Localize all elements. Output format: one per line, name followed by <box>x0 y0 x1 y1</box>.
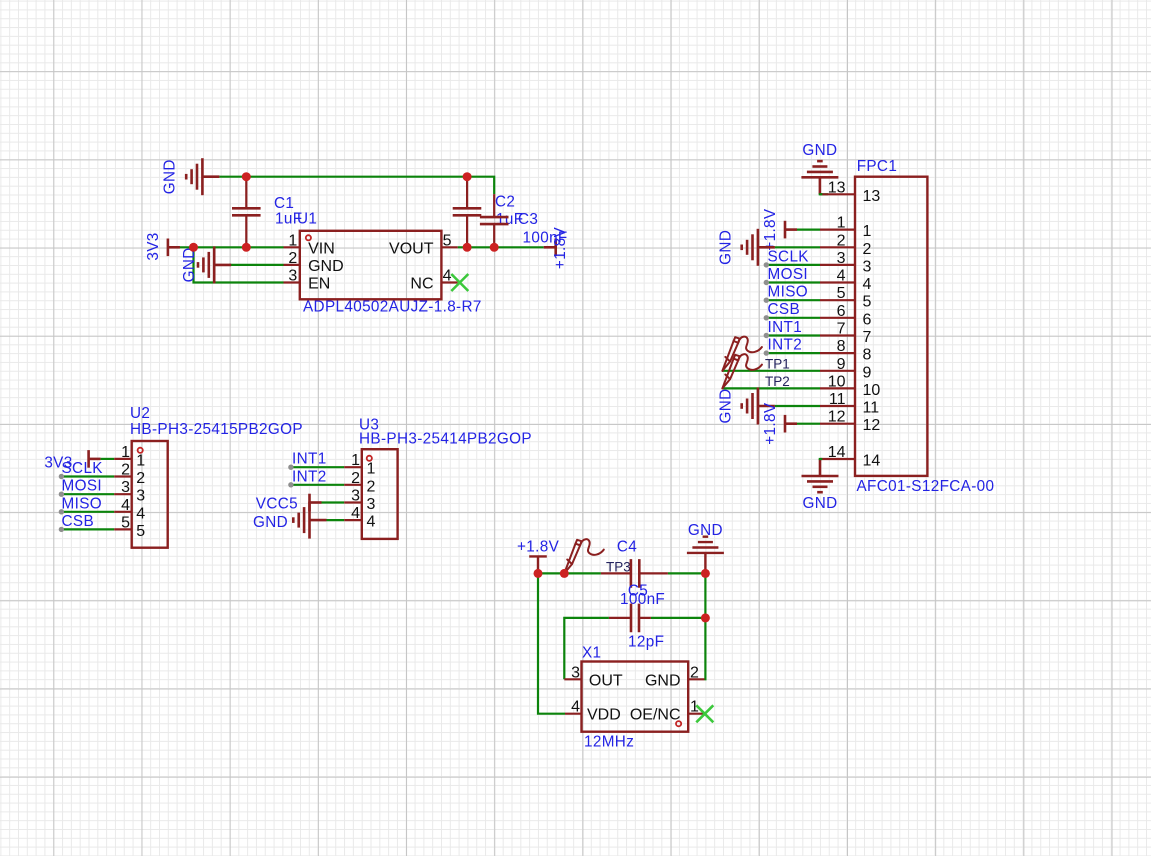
FPC1 pin 2 <box>820 246 855 248</box>
svg-text:1: 1 <box>121 444 130 461</box>
svg-text:C5: C5 <box>628 583 648 600</box>
X1 pin 3 <box>564 678 581 680</box>
wire TP1 (FPC pin9) <box>722 370 820 372</box>
U1 pin 2 <box>284 264 300 266</box>
wire top rail left <box>538 572 601 574</box>
op-amp U1 body <box>300 231 442 299</box>
svg-text:12: 12 <box>828 409 846 426</box>
net label 3V3 (vertical) <box>145 232 162 260</box>
svg-text:TP1: TP1 <box>765 357 790 372</box>
net label GND (U3) <box>253 514 288 531</box>
svg-text:HB-PH3-25414PB2GOP: HB-PH3-25414PB2GOP <box>359 430 532 447</box>
U2 pin 1 <box>114 458 132 460</box>
svg-text:9: 9 <box>863 364 872 381</box>
gray dangling dots U2 <box>59 474 64 532</box>
svg-text:VCC5: VCC5 <box>256 495 298 512</box>
X1 pin names <box>587 672 681 723</box>
svg-text:FPC1: FPC1 <box>857 158 898 175</box>
svg-text:7: 7 <box>837 321 846 338</box>
net label SCLK (U2) <box>62 460 104 477</box>
value HB-PH3-25415PB2GOP <box>130 421 303 438</box>
FPC1 pin 10 <box>820 387 855 389</box>
reference X1 <box>582 645 601 662</box>
svg-text:10: 10 <box>828 373 846 390</box>
connector U2 body <box>132 441 168 548</box>
svg-text:4: 4 <box>837 268 846 285</box>
svg-text:VIN: VIN <box>308 240 335 257</box>
junction dots U1 rails <box>189 172 499 252</box>
net label GND (crystal) <box>688 522 723 539</box>
svg-text:NC: NC <box>410 276 433 293</box>
capacitor C5 <box>609 604 651 633</box>
U3 pin1 marker circle <box>367 456 372 461</box>
svg-text:5: 5 <box>863 294 872 311</box>
svg-text:AFC01-S12FCA-00: AFC01-S12FCA-00 <box>857 478 995 495</box>
svg-text:INT1: INT1 <box>768 319 803 336</box>
svg-text:GND: GND <box>645 672 681 689</box>
gray dangling dots FPC <box>764 262 769 356</box>
U1 pin 4 <box>441 281 457 283</box>
svg-text:4: 4 <box>443 268 452 285</box>
wire joint dot pin13 <box>819 193 823 195</box>
wire MISO (FPC pin5) <box>766 299 820 301</box>
net label MISO (U2) <box>62 495 103 512</box>
no-connect flag U1 pin4 <box>451 274 468 291</box>
capacitor C2 <box>453 177 482 248</box>
net label GND (U1 pin2, vertical) <box>181 247 198 282</box>
net label +1.8V (FPC pin1, vertical) <box>762 208 779 251</box>
U2 pin 3 <box>114 493 132 495</box>
svg-text:3: 3 <box>288 268 297 285</box>
net label GND (top-left, vertical) <box>162 159 179 194</box>
FPC1 inside pin numbers <box>863 188 881 470</box>
svg-text:7: 7 <box>863 329 872 346</box>
wire: pin13 to GND <box>820 193 828 195</box>
reference FPC1 <box>857 158 898 175</box>
connector U3 body <box>362 449 398 539</box>
svg-text:3: 3 <box>367 496 376 513</box>
svg-text:12: 12 <box>863 417 881 434</box>
svg-text:4: 4 <box>136 505 145 522</box>
X1 pin numbers <box>571 664 699 715</box>
svg-text:GND: GND <box>802 495 837 512</box>
net label VCC5 <box>256 495 298 512</box>
svg-text:U1: U1 <box>297 211 317 228</box>
value 12MHz <box>584 734 634 751</box>
power flag +1.8V (crystal) <box>529 556 547 573</box>
svg-text:EN: EN <box>308 276 330 293</box>
svg-text:3: 3 <box>136 488 145 505</box>
FPC1 outside pin numbers <box>828 179 846 461</box>
U3 pin 2 <box>344 484 362 486</box>
net label MOSI (U2) <box>62 478 103 495</box>
FPC1 pin 7 <box>820 334 855 336</box>
svg-text:GND: GND <box>688 522 723 539</box>
svg-text:ADPL40502AUJZ-1.8-R7: ADPL40502AUJZ-1.8-R7 <box>303 299 482 316</box>
svg-text:5: 5 <box>837 285 846 302</box>
svg-text:MOSI: MOSI <box>768 266 809 283</box>
svg-text:U2: U2 <box>130 405 150 422</box>
label C2 <box>495 194 515 211</box>
power flag +1.8V (U1 output) <box>544 239 556 257</box>
capacitor C1 <box>232 177 261 248</box>
label C4 <box>617 539 637 556</box>
net label GND (FPC top) <box>802 142 837 159</box>
X1 pin1 marker circle <box>676 721 681 726</box>
svg-text:2: 2 <box>121 462 130 479</box>
U2 pin 2 <box>114 475 132 477</box>
net label CSB (FPC) <box>768 301 801 318</box>
net label INT1 (U3) <box>292 451 327 468</box>
label TP1 <box>765 357 790 372</box>
svg-text:HB-PH3-25415PB2GOP: HB-PH3-25415PB2GOP <box>130 421 303 438</box>
wire left drop to X1 pin4 <box>538 573 565 713</box>
svg-text:6: 6 <box>863 311 872 328</box>
capacitor C4 <box>601 559 668 588</box>
svg-text:14: 14 <box>863 453 881 470</box>
wire INT1 (U3 pin1) <box>291 466 344 468</box>
svg-text:+1.8V: +1.8V <box>762 208 779 251</box>
net label CSB (U2) <box>62 513 95 530</box>
svg-text:VDD: VDD <box>587 707 621 724</box>
FPC1 pin 3 <box>820 264 855 266</box>
power flag 3V3 <box>168 239 180 257</box>
wire MISO (U2 pin4) <box>61 511 114 513</box>
test point TP2 <box>722 354 762 388</box>
U2 pin 4 <box>114 511 132 513</box>
wire: EN tie to 3V3 <box>194 247 284 282</box>
capacitor C3 <box>480 194 509 247</box>
net label MOSI (FPC) <box>768 266 809 283</box>
svg-text:3: 3 <box>121 479 130 496</box>
net label GND (FPC pin2, vertical) <box>718 230 735 265</box>
U1 pin1 marker circle <box>306 235 311 240</box>
svg-text:5: 5 <box>136 523 145 540</box>
U2 pin1 marker circle <box>138 448 143 453</box>
svg-text:100nF: 100nF <box>523 230 568 247</box>
ground GND top-left <box>186 158 219 195</box>
junction dots crystal <box>534 569 710 623</box>
svg-text:1: 1 <box>288 232 297 249</box>
svg-text:1: 1 <box>837 215 846 232</box>
connector FPC1 body <box>855 177 927 476</box>
U2 outside pin numbers <box>121 444 130 532</box>
power flag +1.8V (FPC pin12) <box>785 415 797 433</box>
svg-text:12MHz: 12MHz <box>584 734 634 751</box>
wire C5 left to X1 pin3 <box>564 618 609 679</box>
ground at U1 pin2 <box>198 246 231 283</box>
net label +1.8V (U1 output, vertical) <box>552 226 569 269</box>
svg-text:8: 8 <box>837 338 846 355</box>
svg-text:OE/NC: OE/NC <box>630 707 681 724</box>
svg-text:GND: GND <box>162 159 179 194</box>
wire FPC pin1 <box>797 229 820 231</box>
FPC1 pin 13 <box>820 193 855 195</box>
svg-text:X1: X1 <box>582 645 601 662</box>
U1 pin numbers <box>288 232 451 284</box>
wire FPC pin12 <box>797 423 820 425</box>
wire MOSI (FPC pin4) <box>766 281 820 283</box>
svg-text:2: 2 <box>136 470 145 487</box>
ground at FPC pin2 <box>742 229 775 266</box>
value AFC01-S12FCA-00 <box>857 478 995 495</box>
wire SCLK (FPC pin3) <box>766 264 820 266</box>
wire CSB (FPC pin6) <box>766 317 820 319</box>
reference U2 <box>130 405 150 422</box>
U3 outside pin numbers <box>351 452 360 522</box>
U1 pin 3 <box>284 281 300 283</box>
net label SCLK (FPC) <box>768 248 810 265</box>
svg-text:GND: GND <box>253 514 288 531</box>
wire SCLK (U2 pin2) <box>61 475 114 477</box>
FPC1 pin 4 <box>820 281 855 283</box>
svg-text:4: 4 <box>121 497 130 514</box>
svg-text:3: 3 <box>351 488 360 505</box>
svg-text:+1.8V: +1.8V <box>762 402 779 445</box>
svg-text:1: 1 <box>863 223 872 240</box>
svg-text:3V3: 3V3 <box>145 232 162 260</box>
FPC1 pin 11 <box>820 405 855 407</box>
test point TP3 <box>564 539 604 573</box>
label C3 <box>518 211 538 228</box>
U3 pin 4 <box>344 519 362 521</box>
svg-text:2: 2 <box>367 478 376 495</box>
power flag +1.8V (FPC pin1) <box>785 221 797 239</box>
svg-text:OUT: OUT <box>589 672 623 689</box>
FPC1 pin 14 <box>820 458 855 460</box>
power flag VCC5 (U3 pin3) <box>310 494 322 512</box>
svg-text:SCLK: SCLK <box>768 248 810 265</box>
ground at U3 pin4 <box>293 502 326 539</box>
ground at FPC pin14 (bottom) <box>802 459 839 492</box>
ground at FPC pin13 (top) <box>801 161 838 194</box>
U3 pin 3 <box>344 501 362 503</box>
wire top rail right <box>668 572 706 574</box>
wire INT2 (U3 pin2) <box>291 484 344 486</box>
svg-text:12pF: 12pF <box>628 634 664 651</box>
svg-text:13: 13 <box>863 188 881 205</box>
wire: GND to top rail <box>219 177 494 194</box>
U1 pin names <box>308 240 434 292</box>
wire: VOUT to +1.8V <box>458 246 544 248</box>
net label +1.8V (crystal) <box>517 539 560 556</box>
svg-text:11: 11 <box>829 391 846 408</box>
label C5 <box>628 583 648 600</box>
svg-text:C1: C1 <box>274 195 294 212</box>
ground GND (crystal) <box>687 537 724 574</box>
wire INT2 (FPC pin8) <box>766 352 820 354</box>
net label 3V3 (U2) <box>44 455 72 472</box>
U2 pin 5 <box>114 528 132 530</box>
reference U3 <box>359 417 379 434</box>
svg-text:GND: GND <box>718 388 735 423</box>
net label INT1 (FPC) <box>768 319 803 336</box>
svg-text:GND: GND <box>718 230 735 265</box>
value 100nF (C4) <box>620 591 665 608</box>
wire U3 pin3 <box>322 501 345 503</box>
wire CSB (U2 pin5) <box>61 528 114 530</box>
net label GND (FPC pin11, vertical) <box>718 388 735 423</box>
no-connect flag X1 pin1 <box>696 705 713 722</box>
svg-text:1: 1 <box>351 452 360 469</box>
svg-text:8: 8 <box>863 347 872 364</box>
svg-text:6: 6 <box>837 303 846 320</box>
X1 pin 2 <box>688 678 704 680</box>
svg-text:MISO: MISO <box>768 284 809 301</box>
svg-text:CSB: CSB <box>62 513 95 530</box>
value ADPL40502AUJZ-1.8-R7 <box>303 299 482 316</box>
svg-text:GND: GND <box>802 142 837 159</box>
svg-text:14: 14 <box>828 444 846 461</box>
U1 pin 5 <box>441 246 457 248</box>
svg-text:INT2: INT2 <box>292 468 327 485</box>
svg-text:11: 11 <box>863 400 880 417</box>
wire joint dot pin14 <box>819 458 823 460</box>
svg-text:MOSI: MOSI <box>62 478 103 495</box>
svg-text:SCLK: SCLK <box>62 460 104 477</box>
svg-text:9: 9 <box>837 356 846 373</box>
U3 inside pin numbers <box>367 461 376 531</box>
U3 pin 1 <box>344 466 362 468</box>
svg-text:C3: C3 <box>518 211 538 228</box>
value 1uF (C2) <box>496 211 523 228</box>
svg-text:4: 4 <box>863 276 872 293</box>
X1 pin 1 <box>688 713 704 715</box>
wire C5 right <box>651 617 706 619</box>
svg-text:4: 4 <box>571 699 580 716</box>
svg-text:GND: GND <box>308 258 344 275</box>
svg-text:CSB: CSB <box>768 301 801 318</box>
svg-text:VOUT: VOUT <box>389 240 434 257</box>
U1 pin 1 <box>284 246 300 248</box>
wire MOSI (U2 pin3) <box>61 493 114 495</box>
FPC1 pin 6 <box>820 317 855 319</box>
net label GND (FPC bottom) <box>802 495 837 512</box>
net label INT2 (FPC) <box>768 337 803 354</box>
wire: 3V3 to VIN <box>177 246 284 248</box>
svg-text:2: 2 <box>837 232 846 249</box>
FPC1 pin 8 <box>820 352 855 354</box>
svg-text:5: 5 <box>121 514 130 531</box>
wire INT1 (FPC pin7) <box>766 334 820 336</box>
svg-text:MISO: MISO <box>62 495 103 512</box>
value 100nF (C3) <box>523 230 568 247</box>
value 12pF (C5) <box>628 634 664 651</box>
gray dangling dots U3 <box>288 465 293 488</box>
FPC1 pin 12 <box>820 423 855 425</box>
svg-text:2: 2 <box>288 250 297 267</box>
net label +1.8V (FPC pin12, vertical) <box>762 402 779 445</box>
svg-text:1: 1 <box>136 452 145 469</box>
X1 pin 4 <box>565 713 582 715</box>
net label MISO (FPC) <box>768 284 809 301</box>
svg-text:10: 10 <box>863 382 881 399</box>
svg-text:TP2: TP2 <box>765 374 790 389</box>
svg-text:5: 5 <box>443 232 452 249</box>
svg-text:2: 2 <box>690 664 699 681</box>
svg-text:3: 3 <box>863 258 872 275</box>
power flag 3V3 (U2 pin1) <box>89 450 101 468</box>
wire U2 pin1 <box>101 458 115 460</box>
crystal X1 body <box>582 662 689 732</box>
svg-text:13: 13 <box>828 179 846 196</box>
U2 inside pin numbers <box>136 452 145 540</box>
wire: U1 pin2 to GND <box>229 264 284 266</box>
test point TP1 <box>722 337 762 371</box>
svg-text:3: 3 <box>571 664 580 681</box>
label TP3 <box>606 560 631 575</box>
svg-text:C2: C2 <box>495 194 515 211</box>
wire FPC pin2 <box>775 246 820 248</box>
svg-text:3: 3 <box>837 250 846 267</box>
svg-text:2: 2 <box>863 241 872 258</box>
FPC1 pin 5 <box>820 299 855 301</box>
value 1uF (C1) <box>275 211 302 228</box>
svg-text:INT2: INT2 <box>768 337 803 354</box>
svg-text:GND: GND <box>181 247 198 282</box>
label TP2 <box>765 374 790 389</box>
svg-text:2: 2 <box>351 470 360 487</box>
svg-text:INT1: INT1 <box>292 451 327 468</box>
FPC1 pin 1 <box>820 229 855 231</box>
value HB-PH3-25414PB2GOP <box>359 430 532 447</box>
wire FPC pin11 <box>775 405 820 407</box>
svg-text:C4: C4 <box>617 539 637 556</box>
FPC1 pin 9 <box>820 370 855 372</box>
ground at FPC pin11 <box>742 388 775 425</box>
svg-text:4: 4 <box>367 514 376 531</box>
net label INT2 (U3) <box>292 468 327 485</box>
wire U3 pin4 <box>327 519 345 521</box>
wire right drop to X1 pin2 <box>703 573 706 679</box>
svg-text:4: 4 <box>351 505 360 522</box>
wire TP2 (FPC pin10) <box>722 387 820 389</box>
reference U1 <box>297 211 317 228</box>
svg-text:+1.8V: +1.8V <box>517 539 560 556</box>
svg-text:1: 1 <box>367 461 376 478</box>
label C1 <box>274 195 294 212</box>
